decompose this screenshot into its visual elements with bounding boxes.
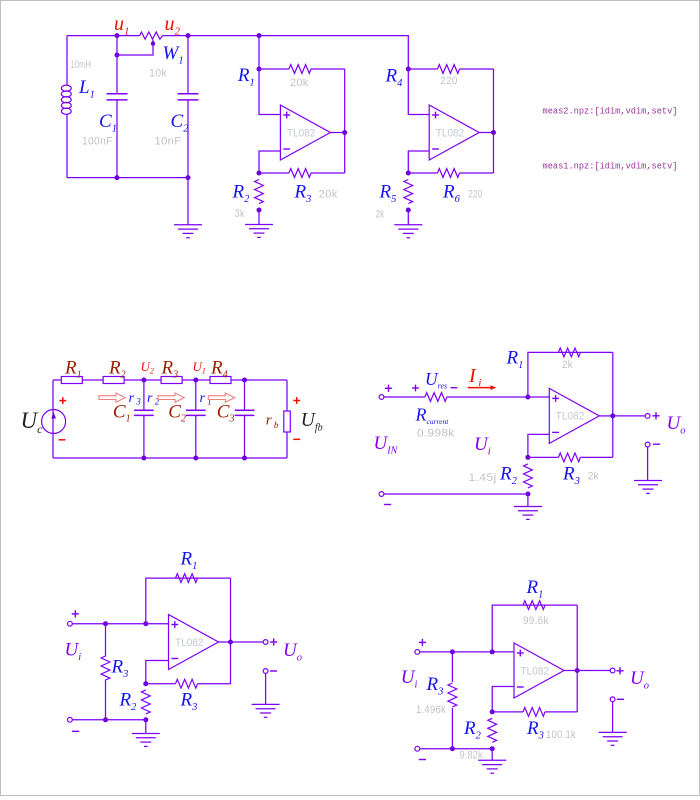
node output (610, 413, 615, 418)
capacitor C2 (195, 380, 197, 410)
terminal output - (645, 442, 650, 447)
svg-text:R3: R3 (161, 358, 179, 381)
wire right rail (576, 605, 578, 712)
wire bottom rail (67, 177, 188, 179)
svg-text:TL082: TL082 (521, 665, 550, 677)
wire input top (72, 623, 168, 625)
ground (258, 210, 260, 225)
wire to R1 node (258, 36, 260, 69)
resistor R1 99.6k (523, 601, 545, 610)
wire output (613, 415, 645, 417)
resistor R4 box (210, 377, 231, 384)
node C2 bottom (186, 175, 191, 180)
svg-text:3k: 3k (235, 208, 245, 220)
svg-text:R1: R1 (180, 549, 198, 573)
svg-text:UIN: UIN (374, 433, 399, 457)
capacitor C3 (244, 380, 246, 410)
wire input to resistor (384, 396, 425, 398)
wire output (577, 670, 610, 672)
source Uc (42, 410, 66, 434)
resistor R3 input shunt (105, 624, 107, 657)
svg-text:TL082: TL082 (556, 411, 585, 423)
node R2 bottom (143, 717, 148, 722)
svg-text:r b: r b (266, 413, 279, 431)
wire bottom input (384, 493, 528, 495)
svg-text:Uo: Uo (283, 640, 302, 664)
node C3 top (242, 378, 247, 383)
svg-text:2k: 2k (562, 359, 573, 371)
svg-text:u2: u2 (165, 13, 181, 38)
terminal input + (379, 395, 384, 400)
wire left branch (66, 36, 68, 85)
node R3 top (103, 621, 108, 626)
svg-text:r 3: r 3 (129, 391, 142, 407)
node feedback junction (490, 649, 495, 654)
svg-text:u1: u1 (114, 13, 130, 38)
resistor rb (286, 380, 288, 458)
svg-text:L1: L1 (78, 77, 95, 101)
svg-text:I i: I i (468, 365, 481, 389)
node output op1 (342, 130, 347, 135)
svg-text:100.1k: 100.1k (546, 729, 576, 741)
svg-text:1.496k: 1.496k (416, 704, 446, 716)
resistor R2 (141, 690, 150, 714)
resistor R3 1.496k (451, 652, 453, 682)
svg-text:Ures: Ures (425, 369, 447, 391)
wire top rail (67, 35, 140, 37)
wire input top (420, 651, 514, 653)
wire right rail op1 (344, 69, 346, 173)
wire right rail (612, 352, 614, 457)
capacitor C1 (116, 36, 118, 94)
resistor R2 3k (255, 180, 264, 204)
svg-text:meas1.npz:[idim,vdim,setv]: meas1.npz:[idim,vdim,setv] (543, 162, 678, 172)
svg-text:1.45j: 1.45j (469, 472, 497, 484)
node R3 bottom (450, 746, 455, 751)
resistor R1 2k (558, 348, 580, 357)
resistor R2 box (103, 377, 124, 384)
ground (491, 749, 493, 761)
wire bottom input (420, 748, 492, 750)
svg-text:Uo: Uo (630, 668, 649, 692)
terminal output - (263, 669, 268, 674)
node C2 bottom (193, 456, 198, 461)
wire output stub (479, 132, 493, 134)
wire output (231, 641, 264, 643)
op-amp U2 TL082 (429, 105, 479, 160)
node C1 bottom (115, 175, 120, 180)
svg-text:C1: C1 (99, 111, 117, 135)
ground (612, 702, 614, 733)
svg-text:R1: R1 (237, 65, 255, 89)
svg-text:R2: R2 (108, 358, 126, 381)
svg-text:C3: C3 (217, 402, 235, 425)
wire W1 wiper (117, 40, 153, 55)
resistor R3 feedback lower (146, 683, 176, 685)
resistor R4 220 (408, 68, 437, 70)
resistor R2 9.82k (488, 718, 497, 742)
resistor R1 (176, 574, 198, 583)
svg-text:2k: 2k (376, 208, 385, 220)
wire to + input (408, 69, 429, 115)
resistor R6 220 (408, 172, 437, 174)
svg-text:20k: 20k (290, 77, 309, 89)
node R3 top (450, 649, 455, 654)
svg-text:10k: 10k (149, 68, 167, 80)
svg-text:W1: W1 (163, 43, 184, 67)
terminal input + (68, 621, 73, 626)
wire - input (492, 687, 514, 712)
svg-text:Ui: Ui (474, 434, 491, 458)
svg-text:C2: C2 (168, 402, 186, 425)
svg-text:R3: R3 (426, 674, 444, 698)
ground (187, 178, 189, 225)
wire feedback vertical (146, 578, 231, 624)
svg-text:R2: R2 (119, 690, 138, 714)
node R5 top (406, 171, 411, 176)
svg-text:R2: R2 (232, 182, 251, 206)
wire feedback left (528, 352, 613, 397)
terminal input - (415, 746, 420, 751)
resistor R3 20k (259, 172, 289, 174)
node R2 bottom (490, 746, 495, 751)
node R5 bottom (406, 208, 411, 213)
svg-text:20k: 20k (319, 188, 338, 200)
ground (647, 447, 649, 481)
ground (265, 673, 267, 704)
op-amp U5 TL082 (514, 643, 564, 698)
svg-text:R2: R2 (499, 464, 518, 488)
svg-text:Uc: Uc (21, 408, 44, 436)
resistor R3 100.1k (492, 711, 523, 713)
op-amp U3 TL082 (528, 396, 549, 398)
wire output stub (599, 415, 613, 417)
svg-text:C2: C2 (171, 111, 190, 135)
node u1 (115, 33, 120, 38)
svg-text:R1: R1 (506, 348, 524, 372)
resistor R1 20k (259, 68, 289, 70)
wire bottom input (72, 719, 145, 721)
node output (228, 640, 233, 645)
wire right rail op2 (493, 69, 495, 173)
inductor L1 (61, 85, 71, 91)
resistor Rcurrent 0.998k (425, 393, 447, 402)
wire - input (528, 434, 549, 457)
svg-text:R3: R3 (562, 464, 580, 488)
svg-text:2k: 2k (588, 471, 599, 483)
svg-text:10nF: 10nF (155, 136, 182, 148)
node U2 (141, 378, 146, 383)
svg-text:meas2.npz:[idim,vdim,setv]: meas2.npz:[idim,vdim,setv] (543, 107, 678, 117)
node R2 top (143, 681, 148, 686)
node R2 bottom (257, 208, 262, 213)
svg-text:Ui: Ui (65, 640, 82, 664)
capacitor C2 (187, 36, 189, 94)
svg-text:R6: R6 (442, 182, 461, 206)
svg-text:99.6k: 99.6k (523, 615, 549, 627)
node output (575, 668, 580, 673)
wire left side (52, 380, 54, 458)
node u2 (186, 33, 191, 38)
node U1 (193, 378, 198, 383)
wire - input (408, 151, 429, 173)
svg-text:0.998k: 0.998k (417, 428, 455, 440)
ground (145, 720, 147, 734)
node at wiper join (115, 53, 120, 58)
node R2 top (525, 455, 530, 460)
node R4 (406, 67, 411, 72)
resistor R1 box (61, 377, 82, 384)
node top rail tap (257, 33, 262, 38)
node feedback junction (143, 621, 148, 626)
resistor R5 2k (404, 180, 413, 204)
svg-text:100nF: 100nF (82, 136, 113, 148)
wire bottom rail (53, 457, 287, 459)
svg-text:TL082: TL082 (175, 637, 204, 649)
svg-text:R4: R4 (385, 66, 404, 90)
wire - input (146, 661, 169, 684)
svg-text:R4: R4 (210, 358, 228, 381)
op-amp U1 TL082 (280, 105, 330, 160)
terminal output - (610, 697, 615, 702)
svg-text:220: 220 (440, 75, 457, 87)
wire output stub (219, 641, 231, 643)
terminal output + (645, 414, 650, 419)
svg-text:U1: U1 (193, 359, 206, 376)
wire feedback vertical (492, 605, 577, 652)
terminal output + (610, 668, 615, 673)
node + input junction (525, 395, 530, 400)
resistor R2 1.45j (524, 464, 533, 488)
node R2 top (257, 171, 262, 176)
svg-text:Ufb: Ufb (301, 410, 323, 434)
svg-text:TL082: TL082 (436, 127, 465, 139)
node R2 bottom (525, 492, 530, 497)
terminal input - (68, 717, 73, 722)
svg-text:220: 220 (468, 188, 482, 200)
svg-text:R3: R3 (294, 182, 312, 206)
op-amp U4 TL082 (169, 615, 219, 670)
svg-text:Ui: Ui (401, 667, 418, 691)
wire to + input (259, 69, 280, 115)
ground (527, 494, 529, 507)
resistor R3 2k (528, 456, 559, 458)
terminal input + (415, 650, 420, 655)
svg-text:R1: R1 (64, 358, 82, 381)
svg-text:R3: R3 (526, 718, 544, 742)
wire output stub (564, 670, 577, 672)
resistor R3 box (161, 377, 182, 384)
svg-text:Uo: Uo (667, 413, 686, 437)
svg-text:Rcurrent: Rcurrent (415, 405, 450, 427)
node C1 bottom (141, 456, 146, 461)
svg-text:R3: R3 (111, 656, 129, 680)
current arrow r3 (99, 393, 125, 402)
capacitor C1 (143, 380, 145, 410)
node R2 top (490, 709, 495, 714)
svg-text:R5: R5 (379, 182, 397, 206)
svg-text:R2: R2 (463, 718, 482, 742)
wire top rail (53, 379, 287, 381)
svg-text:10mH: 10mH (71, 59, 91, 71)
node C3 bottom (242, 456, 247, 461)
svg-text:U2: U2 (141, 359, 154, 376)
svg-text:R3: R3 (180, 690, 198, 714)
wire - input (259, 151, 280, 173)
node output op2 (491, 130, 496, 135)
wire output stub (330, 132, 344, 134)
wire right rail (230, 578, 232, 684)
ground (407, 210, 409, 225)
svg-text:R1: R1 (526, 577, 544, 601)
node R3 bottom (103, 717, 108, 722)
node R1 (257, 67, 262, 72)
svg-text:TL082: TL082 (287, 127, 316, 139)
terminal input - (379, 492, 384, 497)
potentiometer W1 (140, 32, 163, 39)
terminal output + (263, 640, 268, 645)
